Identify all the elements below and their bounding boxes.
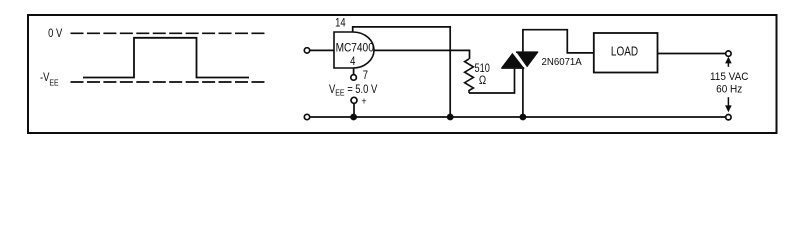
0 V label — [48, 27, 62, 40]
arrow up (AC source) — [727, 62, 729, 67]
svg-text:-VEE: -VEE — [40, 71, 59, 87]
pin 14 label — [335, 16, 346, 29]
svg-text:2N6071A: 2N6071A — [542, 57, 583, 68]
junction dot (pin 14 to rail) — [447, 114, 454, 121]
wire pin 14 to ground rail — [353, 27, 451, 117]
wire input terminal to gate — [310, 49, 334, 51]
wire triac MT2 to load — [523, 30, 594, 53]
triac Q1 2N6071A — [501, 53, 538, 68]
svg-text:7: 7 — [363, 69, 368, 82]
AC terminal bottom — [726, 115, 731, 120]
input terminal (top left) — [304, 48, 309, 53]
wire resistor to triac gate — [469, 69, 515, 93]
pin 7 terminal — [351, 75, 357, 81]
svg-text:LOAD: LOAD — [611, 45, 638, 58]
-VEE dashed reference line — [71, 81, 265, 83]
wire gate output to resistor — [374, 50, 470, 59]
battery positive terminal — [351, 97, 357, 103]
svg-text:115 VAC: 115 VAC — [710, 71, 749, 84]
svg-text:0 V: 0 V — [48, 27, 62, 40]
svg-text:VEE = 5.0 V: VEE = 5.0 V — [329, 83, 377, 98]
junction dot (VEE return) — [350, 114, 357, 121]
pin 7 label — [363, 69, 368, 82]
510 ohm value label — [475, 63, 491, 75]
gate U1 MC7400 — [334, 32, 374, 68]
wire battery positive to ground rail — [353, 103, 355, 117]
wire load to AC terminal — [658, 53, 726, 55]
ground rail (bottom wire) — [310, 116, 726, 118]
input pulse waveform — [83, 38, 249, 78]
115 VAC label — [710, 71, 749, 84]
pin 7 stub — [353, 68, 355, 75]
AC terminal top — [726, 51, 731, 56]
wire triac MT1 to ground rail — [522, 68, 524, 117]
svg-text:60 Hz: 60 Hz — [716, 83, 742, 96]
pin 4 label — [350, 55, 355, 68]
junction dot (MT1 to rail) — [520, 114, 527, 121]
load box — [594, 33, 658, 73]
svg-text:MC7400: MC7400 — [336, 42, 374, 55]
VEE = 5.0 V label — [329, 83, 377, 98]
0 V dashed reference line — [71, 32, 265, 34]
arrow down (AC source) — [727, 97, 729, 105]
common terminal (bottom left) — [304, 114, 309, 119]
svg-text:4: 4 — [350, 55, 355, 68]
resistor R1 510 ohm — [465, 59, 474, 93]
2N6071A label — [542, 57, 583, 68]
svg-text:+: + — [361, 96, 367, 108]
-VEE label — [40, 71, 59, 87]
battery plus label — [361, 96, 367, 108]
60 Hz label — [716, 83, 742, 96]
svg-text:Ω: Ω — [479, 74, 486, 87]
svg-text:14: 14 — [335, 16, 346, 29]
